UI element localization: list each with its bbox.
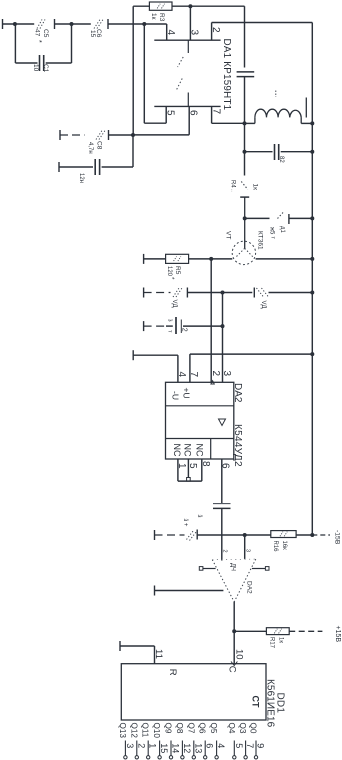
DA1 base bar lower: [154, 105, 220, 107]
wire: [301, 122, 312, 124]
DA2 divider 2: [166, 438, 234, 440]
node junction: [232, 629, 236, 633]
wire: [197, 534, 245, 536]
wire: [234, 630, 266, 632]
terminal tick: [143, 288, 145, 298]
node junction: [310, 352, 314, 356]
DA2 pin3 wire: [222, 293, 224, 383]
inductor core line: [305, 98, 307, 118]
svg-text:8: 8: [200, 461, 211, 467]
capacitor C1 (vertical plates): [39, 55, 41, 71]
terminal tick: [154, 530, 156, 540]
svg-text:16к: 16к: [281, 541, 287, 551]
svg-text:Q4: Q4: [227, 723, 236, 734]
op-amp output wire: [233, 602, 235, 631]
diode VD2 (series, chain): [94, 20, 100, 29]
terminal tick: [154, 586, 156, 596]
svg-text:Q7: Q7: [186, 723, 195, 734]
terminal tick: [119, 641, 121, 651]
NC tie bracket: [178, 480, 202, 482]
terminal tick: [143, 321, 145, 331]
wire: [166, 325, 173, 327]
wire: [177, 355, 179, 382]
wire (R1 left lead down to node): [132, 6, 134, 135]
wire (pin6 to cap node): [133, 134, 189, 136]
svg-text:2: 2: [210, 371, 221, 377]
node junction: [13, 22, 17, 26]
node junction (feedback tap): [142, 22, 146, 26]
svg-text:11: 11: [153, 649, 164, 659]
DA2 NC compartment divider: [210, 439, 212, 460]
supply rail V1: [311, 23, 313, 536]
wire (pin5 loop left): [144, 122, 166, 124]
svg-text:NC: NC: [172, 444, 182, 457]
wire: [14, 24, 16, 63]
wire: [221, 508, 223, 560]
wire: [133, 5, 149, 7]
svg-text:К561ИЕ16: К561ИЕ16: [264, 679, 275, 728]
wire: [3, 23, 35, 25]
DA2 pin7 wire: [189, 354, 191, 382]
svg-text:3: 3: [189, 30, 200, 36]
DA2 pin4 wire: [133, 354, 178, 356]
terminal tick: [132, 350, 134, 360]
balance square left: [199, 567, 203, 571]
node junction: [243, 150, 247, 154]
svg-text:5: 5: [187, 463, 198, 469]
node junction: [243, 121, 247, 125]
svg-text:К544УД2: К544УД2: [232, 424, 243, 467]
op-amp triangle top side: [212, 558, 256, 561]
svg-text:C: C: [226, 666, 237, 673]
svg-text:120: 120: [166, 266, 172, 277]
pin 4 wire: [166, 24, 168, 40]
svg-text:-U: -U: [171, 391, 181, 400]
capacitor C4 plates: [274, 144, 276, 160]
wire: [59, 166, 93, 168]
node junction: [243, 533, 247, 537]
terminal tick: [59, 130, 61, 140]
svg-text:+15В: +15В: [334, 626, 341, 643]
DA2 box outline: [166, 382, 234, 459]
svg-text:КТ361: КТ361: [257, 231, 264, 250]
wire: [46, 62, 72, 64]
svg-text:Q8: Q8: [175, 723, 184, 734]
input stub right: [244, 535, 246, 559]
node junction: [310, 216, 314, 220]
wire: [244, 123, 246, 151]
svg-text:DA2: DA2: [232, 383, 243, 403]
svg-text:Q3: Q3: [238, 723, 247, 734]
balance square right: [265, 567, 269, 571]
svg-text:1к: 1к: [150, 13, 157, 20]
wire: [189, 258, 212, 260]
svg-text:ӟ: ӟ: [196, 515, 203, 518]
svg-text:15: 15: [89, 30, 96, 38]
wire: [144, 258, 166, 260]
pin 3 wire: [189, 6, 191, 40]
wire: [102, 166, 133, 168]
pin1 stub: [177, 459, 179, 481]
svg-text:14: 14: [171, 743, 181, 753]
clock chevron: [231, 662, 237, 666]
wire: [144, 292, 171, 294]
wire: [245, 534, 271, 536]
svg-text:ДЧ: ДЧ: [230, 563, 236, 571]
pin 5 wire: [165, 106, 167, 123]
wire: [108, 23, 167, 25]
wire: [281, 151, 313, 153]
wire: [132, 135, 134, 167]
DD1 box outline: [121, 664, 266, 720]
wire: [155, 534, 185, 536]
wire (pin2 to rail): [212, 22, 313, 24]
svg-text:2: 2: [222, 550, 228, 553]
diode VD4 (vertical): [241, 182, 248, 190]
diode VD3 (series): [96, 131, 102, 140]
pin 2 wire: [211, 23, 213, 41]
node junction: [221, 324, 225, 328]
wire: [223, 292, 253, 294]
DA2 pin2 wire: [210, 259, 212, 382]
DA2 divider 1: [166, 405, 234, 407]
node junction: [209, 257, 213, 261]
svg-text:R3: R3: [158, 13, 165, 22]
svg-text:Q11: Q11: [141, 723, 150, 738]
resistor R7: [271, 531, 296, 538]
svg-text:4,7н: 4,7н: [87, 142, 93, 154]
wire: [244, 77, 246, 124]
svg-text:VД: VД: [171, 300, 177, 308]
svg-text:С8: С8: [96, 141, 103, 150]
svg-text:4: 4: [176, 372, 187, 378]
balance stub left: [203, 568, 216, 570]
wire: [72, 23, 91, 25]
resistor R8: [266, 628, 289, 635]
wire (to DD1 clock): [233, 631, 235, 663]
svg-text:5: 5: [165, 110, 176, 116]
svg-text:1: 1: [176, 463, 187, 469]
svg-text:4: 4: [165, 30, 176, 36]
svg-text:С5: С5: [42, 29, 49, 38]
node junction: [310, 257, 314, 261]
wire: [190, 5, 244, 7]
node junction (rail end): [310, 533, 314, 537]
svg-text:Q6: Q6: [198, 723, 207, 734]
DA2 pin6 wire: [221, 459, 223, 503]
op-amp triangle left side: [212, 560, 234, 602]
pin 7 wire: [211, 106, 213, 123]
svg-text:7: 7: [211, 109, 222, 115]
VT1 collector diagonal: [245, 248, 254, 257]
svg-text:*: *: [35, 40, 42, 43]
wire: [244, 6, 246, 67]
svg-text:15: 15: [159, 743, 169, 753]
svg-text:VД: VД: [260, 301, 266, 309]
resistor R2: [166, 254, 189, 263]
svg-text:12: 12: [182, 743, 192, 753]
coupling capacitor C6: [213, 503, 231, 505]
balance stub right: [252, 568, 265, 570]
wire: [15, 62, 37, 64]
DD1 R pin wire: [120, 645, 155, 647]
wire: [269, 292, 313, 294]
svg-text:CT: CT: [250, 696, 260, 708]
node junction: [221, 291, 225, 295]
wire: [144, 325, 167, 327]
wire: [296, 534, 312, 536]
wire (feedback vertical): [143, 24, 145, 123]
wire: [245, 217, 270, 219]
svg-text:Q9: Q9: [164, 723, 173, 734]
node junction: [188, 4, 192, 8]
wire: [183, 325, 223, 327]
svg-text:+U: +U: [182, 388, 192, 399]
node junction: [243, 216, 247, 220]
svg-text:С1: С1: [42, 64, 49, 73]
pin5 stub: [187, 459, 189, 478]
terminal tick left end: [2, 19, 4, 29]
svg-text:10: 10: [234, 649, 245, 660]
wire: [55, 23, 72, 25]
diode VD8: [187, 531, 194, 540]
terminal tick: [58, 162, 60, 172]
svg-text:Q5: Q5: [209, 723, 218, 734]
wire: [109, 134, 134, 136]
svg-text:7: 7: [188, 372, 199, 378]
svg-text:NC: NC: [195, 444, 205, 457]
svg-text:1: 1: [148, 743, 158, 748]
svg-text:7: 7: [245, 743, 255, 748]
capacitor C4 row: [245, 151, 273, 153]
svg-text:VT: VT: [225, 231, 232, 239]
diode VD5 (horizontal): [278, 213, 284, 219]
svg-text:2: 2: [136, 743, 146, 748]
diode VD7 (reversed): [253, 288, 255, 298]
svg-text:4: 4: [216, 743, 226, 748]
svg-text:6: 6: [205, 743, 215, 748]
wire: [289, 217, 312, 219]
svg-text:3: 3: [221, 371, 232, 377]
VT1 emitter diagonal: [236, 248, 245, 257]
svg-text:Q12: Q12: [129, 723, 138, 739]
wire: [172, 5, 190, 7]
svg-text:R16: R16: [272, 541, 278, 553]
inductor L1 (4 loops): [254, 117, 256, 123]
node junction: [310, 291, 314, 295]
wire: [312, 534, 330, 536]
wire: [60, 134, 85, 136]
svg-text:Q13: Q13: [118, 723, 127, 739]
svg-text:Q10: Q10: [152, 723, 161, 739]
wire: [71, 24, 73, 63]
capacitor C2 (vertical plates): [94, 159, 96, 175]
wire (pin7 to rail): [190, 353, 312, 355]
svg-text:..: ..: [230, 189, 236, 192]
VT1 collector wire: [256, 258, 313, 260]
svg-text:R17: R17: [269, 637, 275, 649]
svg-text:Q0: Q0: [249, 723, 258, 734]
svg-text:DA2: DA2: [246, 581, 253, 594]
wire: [289, 630, 322, 632]
svg-text:1к: 1к: [252, 184, 259, 191]
pin 6 wire: [188, 106, 190, 134]
wire: [187, 292, 222, 294]
svg-text:ж5: ж5: [268, 227, 274, 235]
stub to left tick: [155, 590, 224, 592]
svg-text:1к: 1к: [278, 637, 284, 643]
NC tie mark: [187, 478, 191, 482]
diode VD1 (series, chain): [37, 20, 42, 29]
node junction: [70, 22, 74, 26]
pin8 stub: [201, 459, 203, 481]
node junction: [310, 121, 314, 125]
wire: [244, 152, 246, 176]
label L1 mark: [275, 91, 277, 98]
svg-text:-15В: -15В: [334, 530, 341, 545]
svg-text:3: 3: [245, 549, 251, 552]
svg-text:3: 3: [125, 743, 135, 748]
input mark on DA2 edge: [211, 381, 214, 384]
diode VD6: [173, 288, 179, 297]
capacitor C3 (horizontal plates): [237, 71, 255, 73]
svg-text:10: 10: [32, 64, 39, 72]
wire: [154, 646, 156, 664]
svg-text:NC: NC: [183, 444, 193, 457]
capacitor C5 polarized: [175, 317, 177, 334]
svg-text:13: 13: [193, 743, 203, 753]
node junction: [131, 133, 135, 137]
VT1 base lead: [244, 218, 246, 248]
svg-text:R: R: [167, 669, 178, 676]
resistor R1: [149, 2, 172, 10]
svg-text:9: 9: [256, 743, 266, 748]
DA1 transistor internals: [187, 40, 189, 53]
svg-text:DA1 КР159НТ1: DA1 КР159НТ1: [221, 39, 232, 111]
terminal tick: [143, 254, 145, 264]
VT1 emitter wire: [211, 258, 232, 260]
op-amp triangle right side: [234, 559, 256, 602]
transistor VT1 circle: [232, 241, 255, 264]
svg-text:2: 2: [210, 27, 221, 33]
DA1 base bar upper: [154, 39, 220, 41]
svg-text:82: 82: [278, 156, 284, 163]
svg-text:д1: д1: [279, 226, 285, 234]
svg-text:6: 6: [188, 110, 199, 116]
svg-text:12н: 12н: [78, 173, 84, 183]
svg-text:R5: R5: [174, 266, 181, 275]
svg-text:47: 47: [34, 29, 41, 37]
wire: [245, 122, 255, 124]
svg-text:R4: R4: [230, 180, 236, 188]
node junction: [310, 150, 314, 154]
svg-text:5: 5: [234, 743, 244, 748]
wire (pin7 to coil node): [212, 122, 245, 124]
svg-text:ӟ +: ӟ +: [182, 519, 188, 527]
op-amp symbol in box: [219, 419, 226, 426]
svg-text:2: 2: [181, 328, 188, 332]
